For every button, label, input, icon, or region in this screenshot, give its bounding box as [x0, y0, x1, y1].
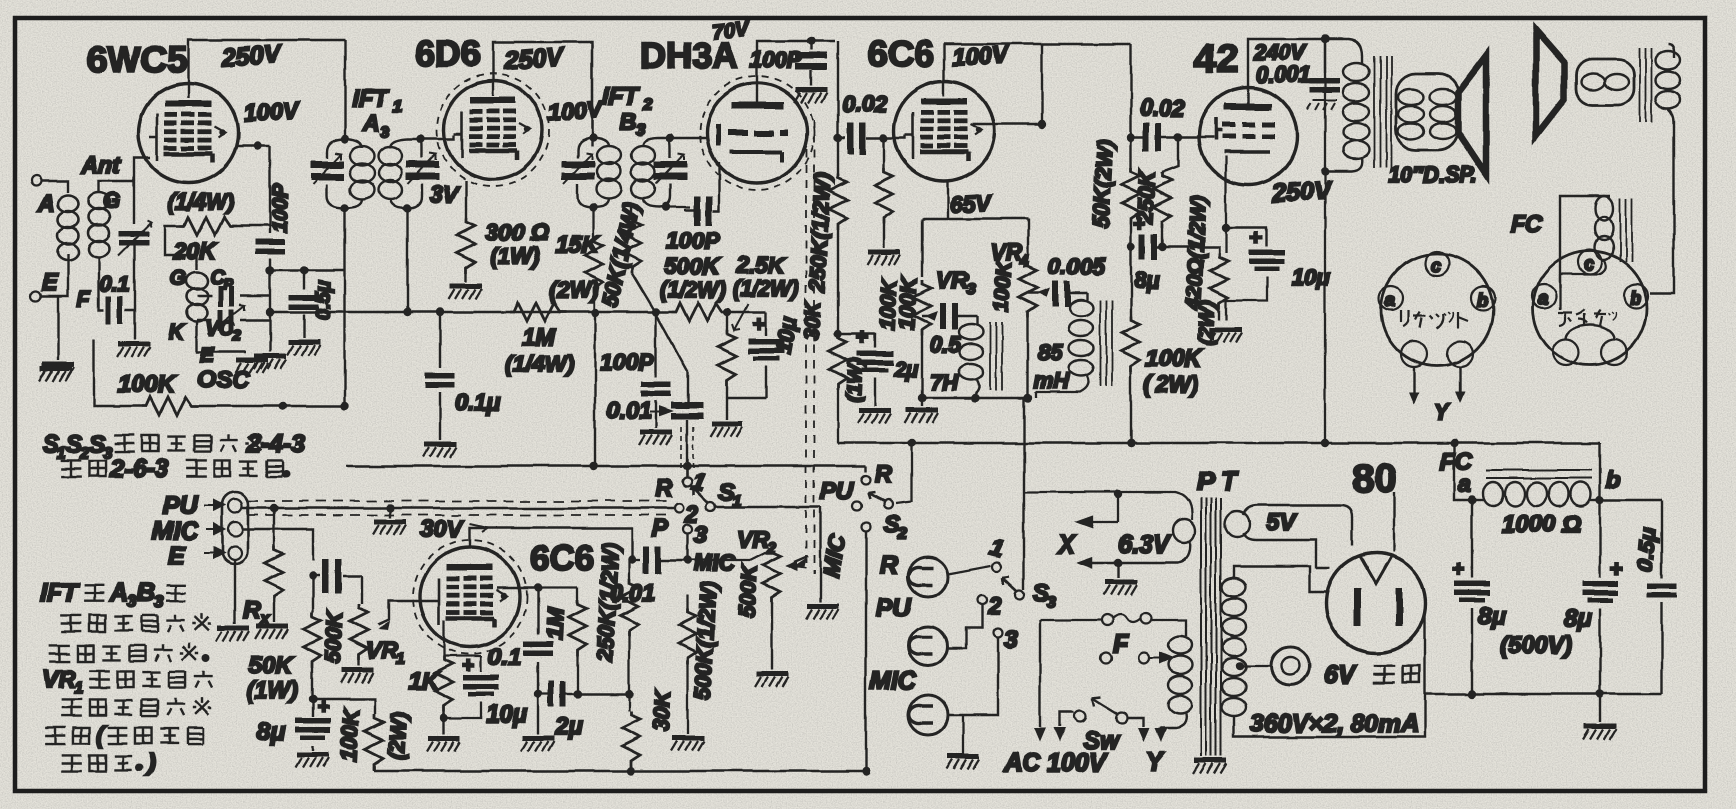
svg-text:6WC5: 6WC5: [87, 39, 187, 80]
bus AVC y466: [346, 466, 866, 472]
svg-text:15K: 15K: [556, 231, 600, 257]
tube 42 envelope: [1199, 87, 1297, 185]
svg-text:100P: 100P: [750, 47, 802, 72]
svg-text:0.001: 0.001: [1256, 62, 1311, 87]
svg-text:G: G: [170, 267, 186, 290]
capacitor VR3 0.5: [922, 303, 977, 357]
wire det node down: [655, 313, 657, 428]
lamp 6V: [1240, 665, 1272, 667]
antenna terminal E: [31, 291, 41, 301]
svg-text:P: P: [223, 276, 234, 293]
capacitor 0.02 out: [1127, 44, 1185, 151]
svg-text:(1W): (1W): [246, 677, 298, 704]
svg-text:VR: VR: [737, 526, 769, 552]
antenna coil primary: [58, 196, 79, 261]
ground padder: [253, 356, 286, 369]
svg-text:500K: 500K: [734, 562, 762, 618]
wire speaker2 down to plug: [1650, 130, 1674, 293]
svg-text:0.01: 0.01: [610, 580, 655, 606]
svg-text:+: +: [1610, 558, 1622, 581]
svg-text:1: 1: [396, 651, 405, 668]
tube DH3A envelope: [707, 83, 807, 183]
svg-text:mH: mH: [1034, 368, 1071, 393]
resistor 1M: [505, 303, 574, 377]
svg-text:a: a: [1538, 288, 1548, 308]
svg-text:R: R: [655, 475, 673, 502]
resistor 30K preamp: [628, 694, 630, 711]
resistor VR4 100K: [990, 259, 1037, 398]
svg-text:FC: FC: [1510, 211, 1543, 238]
svg-text:4: 4: [1019, 253, 1029, 270]
svg-text:1K: 1K: [408, 668, 440, 695]
IFT2 transformer: [562, 133, 687, 211]
svg-text:1000 Ω: 1000 Ω: [1502, 511, 1581, 538]
wire secondary top to tuning cap: [99, 158, 150, 224]
svg-text:VR: VR: [936, 267, 968, 293]
wire IFT1 out to 6D6 grid: [421, 135, 454, 139]
tube 6C6 preamp electrodes: [431, 564, 507, 627]
capacitor 0.1u: [425, 312, 501, 440]
tube 6C6 envelope: [894, 81, 994, 181]
wire 100V node: [236, 145, 270, 147]
svg-text:OSC: OSC: [197, 367, 250, 394]
ground bottom right: [1599, 694, 1601, 722]
resistor 250K half W: [628, 560, 630, 580]
svg-text:PU: PU: [163, 491, 199, 519]
wire MIC panel down: [242, 529, 313, 560]
note line3: [49, 645, 70, 661]
svg-text:85: 85: [1038, 340, 1063, 365]
svg-text:P T: P T: [1197, 466, 1239, 496]
resistor 1M preamp: [577, 588, 579, 600]
svg-text:3: 3: [966, 281, 975, 298]
ground 0.1: [537, 694, 539, 734]
svg-text:0.01: 0.01: [607, 397, 652, 423]
wire agc joins bus: [283, 405, 345, 407]
wire preamp plate right: [497, 560, 538, 588]
svg-text:0.1: 0.1: [488, 644, 521, 671]
resistor 2.5K: [718, 304, 748, 398]
wire E panel ground: [234, 560, 236, 624]
svg-text:(2W): (2W): [1194, 300, 1219, 347]
svg-text:X: X: [1056, 531, 1076, 559]
wire 80 plate top: [1393, 492, 1395, 552]
svg-text:2-4-3: 2-4-3: [246, 430, 305, 458]
svg-text:6D6: 6D6: [415, 33, 481, 74]
shielded line dashes: [248, 500, 672, 502]
ground 0.5u: [287, 342, 320, 355]
wire 6C6 cathode 65V: [947, 181, 949, 219]
antenna coil secondary: [89, 193, 110, 258]
tube 6C6 preamp envelope: [420, 547, 520, 647]
svg-text:100P: 100P: [666, 227, 720, 253]
svg-text:3: 3: [694, 522, 708, 549]
input panel: [222, 492, 248, 564]
svg-text:3V: 3V: [430, 181, 460, 207]
svg-text:100V: 100V: [243, 97, 300, 127]
capacitor 0.02 input 6C6: [834, 41, 905, 174]
svg-text:100P: 100P: [600, 349, 654, 375]
ground 100K grid2: [867, 252, 900, 265]
svg-text:+: +: [1452, 558, 1464, 581]
tube DH3A electrodes: [716, 102, 788, 162]
resistor 500K horizontal: [652, 303, 740, 321]
svg-text:300 Ω: 300 Ω: [486, 219, 549, 245]
svg-text:2: 2: [642, 95, 653, 114]
wire 65V node line: [922, 219, 1028, 277]
wire IFT2 out to DH3A grid: [684, 210, 700, 220]
svg-text:b: b: [1630, 288, 1641, 308]
svg-text:0.02: 0.02: [842, 91, 887, 117]
svg-text:360V×2, 80mA: 360V×2, 80mA: [1250, 710, 1419, 738]
resistor 250K(1/2W) grid: [804, 173, 847, 334]
svg-text:MIC: MIC: [870, 667, 917, 695]
wire A to coil: [41, 181, 68, 193]
svg-text:6V: 6V: [1324, 661, 1357, 689]
tube 6D6 electrodes: [454, 97, 530, 160]
wire plate to 250V rail: [188, 40, 345, 98]
ground 100P lower: [639, 432, 672, 445]
shield pair DH3A line: [806, 120, 814, 574]
FC choke winding: [1472, 482, 1600, 506]
capacitor Cp: [197, 267, 270, 307]
resistor 20K: [180, 217, 236, 235]
note line4: [61, 755, 82, 771]
socket katakana: [1401, 310, 1468, 328]
tube 80 electrodes: [1360, 556, 1392, 584]
svg-text:1: 1: [74, 680, 83, 697]
svg-text:E: E: [168, 542, 186, 570]
resistor Rx: [273, 512, 275, 546]
svg-text:10″D.SP.: 10″D.SP.: [1388, 162, 1478, 187]
svg-text:100V: 100V: [547, 96, 604, 126]
svg-text:b: b: [1477, 290, 1488, 310]
svg-text:+: +: [752, 312, 765, 337]
svg-text:A: A: [109, 579, 128, 607]
svg-text:5V: 5V: [1266, 509, 1297, 536]
wire IFT2 out to DH3A grid: [670, 137, 708, 139]
wire a node: [1454, 443, 1472, 500]
wire bottom row chokes: [922, 397, 1028, 399]
AC plug arrows: [1039, 620, 1041, 727]
speaker2 transformer core: [1640, 48, 1652, 122]
bottom bus left: [374, 770, 866, 772]
ground agc left: [39, 368, 72, 381]
capacitor 8u preamp: [309, 695, 317, 703]
wire 2.5K bottom: [727, 398, 766, 420]
svg-text:6C6: 6C6: [868, 33, 934, 74]
svg-text:80: 80: [1352, 457, 1397, 501]
tube 42 electrodes: [1216, 103, 1275, 152]
svg-text:VR: VR: [366, 637, 398, 663]
shield arrow to VR2: [794, 556, 808, 562]
wire jacks ground: [927, 597, 929, 752]
svg-text:IFT: IFT: [602, 83, 640, 110]
wire cap node to ground: [133, 296, 135, 340]
svg-text:100K: 100K: [336, 706, 364, 762]
ground tuning: [117, 344, 150, 357]
svg-text:50K: 50K: [248, 652, 294, 679]
wire 42 grid: [1178, 136, 1214, 138]
svg-text:3: 3: [127, 592, 137, 611]
svg-text:3: 3: [1047, 594, 1056, 611]
ground 420: [1209, 330, 1242, 343]
svg-text:8μ: 8μ: [256, 718, 285, 746]
svg-text:2: 2: [987, 593, 1002, 620]
note line2: [61, 460, 82, 476]
svg-text:VR: VR: [42, 666, 76, 693]
PT HV winding: [1222, 570, 1246, 716]
note line2: [61, 699, 82, 715]
svg-text:B: B: [137, 579, 155, 607]
svg-text:7H: 7H: [930, 370, 959, 395]
svg-text:+: +: [856, 326, 868, 349]
wire 20K left: [165, 226, 197, 270]
svg-text:A: A: [37, 190, 55, 216]
capacitor 8u: [1127, 213, 1175, 293]
socket pins down: [1414, 367, 1460, 396]
svg-text:0.005: 0.005: [1048, 253, 1107, 279]
capacitor 0.01 preamp: [632, 559, 640, 561]
wire DH3A plate to 70V: [757, 41, 835, 102]
capacitor 100P padder: [255, 146, 292, 352]
capacitor 10u cathode: [740, 312, 801, 398]
oscillator coil Cp: [187, 273, 208, 322]
speaker2 voice coil: [1576, 59, 1634, 105]
svg-text:R: R: [880, 551, 898, 579]
speaker1 horn: [1458, 55, 1486, 174]
svg-text:MIC: MIC: [694, 550, 735, 575]
svg-text:1M: 1M: [541, 606, 569, 640]
svg-text:100K: 100K: [1146, 345, 1202, 371]
tuning capacitor VC1: [118, 220, 152, 296]
svg-text:E: E: [42, 269, 58, 295]
svg-text:IFT: IFT: [352, 85, 390, 112]
svg-text:Y: Y: [1146, 748, 1165, 776]
capacitor 100P lower: [600, 349, 671, 397]
svg-text:100P: 100P: [269, 183, 292, 233]
svg-text:1M: 1M: [522, 324, 556, 351]
wire 20K right: [236, 225, 270, 227]
ground shield: [389, 508, 391, 518]
field coil FC: [1548, 196, 1632, 310]
speaker2 transformer winding: [1656, 44, 1680, 130]
tube 6C6 electrodes: [905, 98, 981, 161]
switch S3: [948, 566, 991, 574]
ground antenna: [41, 364, 74, 377]
svg-text:a: a: [1458, 471, 1471, 497]
svg-text:3: 3: [154, 592, 164, 611]
svg-text:b: b: [1606, 466, 1620, 492]
ground 300ohm: [449, 286, 482, 299]
PT 5V winding: [1225, 505, 1352, 568]
plug katakana: [1558, 310, 1616, 326]
note line3: [45, 727, 66, 743]
heater 6.3V loop: [1024, 492, 1192, 520]
svg-text:100V: 100V: [951, 41, 1010, 71]
ground VR3: [905, 410, 938, 423]
wire 6C6 plate top: [972, 44, 1042, 124]
antenna terminal A: [31, 176, 41, 186]
wire 6D6 plate to 250V: [493, 42, 592, 146]
capacitor 0.1 preamp: [537, 588, 539, 694]
svg-text:500K: 500K: [320, 608, 348, 664]
svg-text:PU: PU: [820, 478, 854, 505]
resistor VR2 500K: [688, 545, 772, 560]
fuse F: [1103, 615, 1114, 626]
capacitor 10u 42: [1226, 226, 1330, 320]
svg-text:IFT: IFT: [40, 579, 80, 607]
switch Sw: [1075, 711, 1086, 722]
svg-text:F: F: [77, 286, 91, 311]
svg-text:10μ: 10μ: [486, 701, 528, 728]
svg-text:(500V): (500V): [1500, 632, 1572, 659]
ground 0.1u: [423, 444, 456, 457]
capacitor 0.005: [1028, 281, 1087, 307]
FC choke core: [1486, 470, 1592, 478]
svg-text:2μ: 2μ: [893, 358, 919, 381]
svg-text:0.5: 0.5: [930, 332, 961, 357]
svg-text:0.1: 0.1: [100, 273, 129, 296]
svg-text:VC: VC: [206, 318, 234, 340]
svg-text:A: A: [362, 110, 380, 136]
capacitor 0.05 coupling: [322, 559, 329, 593]
svg-text:+: +: [462, 655, 474, 677]
wire PU line: [242, 507, 675, 509]
svg-text:30K: 30K: [800, 300, 825, 342]
svg-text:AC 100V: AC 100V: [1003, 749, 1108, 777]
svg-text:0.1μ: 0.1μ: [455, 389, 501, 415]
svg-text:30K: 30K: [648, 689, 675, 733]
svg-text:(1/2W): (1/2W): [660, 277, 726, 302]
tube 6WC5 electrodes: [149, 100, 225, 163]
svg-text:8μ: 8μ: [1478, 603, 1506, 630]
svg-text:(1W): (1W): [490, 243, 540, 269]
svg-text:0.5μ: 0.5μ: [313, 280, 335, 320]
svg-text:PU: PU: [876, 594, 912, 622]
svg-text:2μ: 2μ: [554, 713, 583, 740]
output transformer OPT primary: [1321, 39, 1369, 443]
ground osc: [235, 360, 268, 373]
svg-text:( 2W): ( 2W): [1144, 371, 1198, 397]
capacitor 100P top: [750, 41, 827, 86]
svg-text:2.5K: 2.5K: [735, 252, 786, 278]
capacitor 0.5u out: [1661, 500, 1663, 578]
resistor 300ohm: [457, 218, 549, 282]
speaker2 horn: [1536, 30, 1564, 136]
bus B+ y443: [838, 442, 1600, 444]
ground 100P top: [794, 90, 827, 103]
wire S1 contact1 up: [686, 466, 688, 477]
svg-text:2-6-3: 2-6-3: [109, 455, 168, 483]
wire MIC contact down: [865, 532, 867, 771]
tube 80 envelope: [1326, 553, 1426, 653]
svg-text:3: 3: [380, 124, 389, 141]
svg-text:MIC: MIC: [152, 517, 199, 545]
svg-text:6.3V: 6.3V: [1118, 531, 1172, 559]
svg-text:G: G: [103, 188, 120, 213]
bottom bus right: [1425, 693, 1662, 695]
resistor 100K grid2: [875, 134, 922, 330]
wire 42 cathode down: [1225, 156, 1227, 253]
svg-text:B: B: [620, 108, 637, 134]
svg-text:2: 2: [232, 327, 242, 344]
PT core: [1201, 498, 1221, 756]
capacitor 0.5u screen: [289, 270, 335, 338]
ground PT: [1209, 756, 1211, 758]
ground 2.5K: [710, 424, 743, 437]
svg-text:F: F: [1113, 630, 1129, 658]
svg-text:x: x: [259, 609, 271, 628]
svg-text:3: 3: [636, 122, 645, 139]
wire IFT1 bottoms down: [345, 208, 407, 312]
capacitor 2u preamp: [538, 693, 548, 695]
resistor 100K 2W preamp: [313, 699, 375, 714]
resistor 500K half: [687, 594, 689, 608]
resistor 500K VR1: [361, 576, 363, 604]
wire HV bottom loop: [1234, 612, 1425, 737]
socket circle: [1379, 252, 1495, 367]
resistor 100K agc: [94, 340, 283, 415]
resistor 50K 1W: [312, 576, 314, 612]
svg-text:1: 1: [393, 97, 402, 116]
svg-text:2: 2: [897, 525, 907, 542]
svg-text:a: a: [1385, 290, 1395, 310]
capacitor 8u left: [1471, 500, 1473, 578]
resistor VR3 100K: [876, 277, 931, 406]
svg-text:(1/2W): (1/2W): [733, 276, 799, 301]
capacitor 0.01 coupling: [607, 316, 703, 477]
svg-text:250V: 250V: [502, 43, 566, 75]
capacitor 0.001: [1307, 39, 1340, 110]
wire 42 plate up: [1248, 39, 1325, 103]
svg-text:0.02: 0.02: [1140, 95, 1185, 121]
svg-text:65V: 65V: [949, 190, 993, 218]
wire 100V rail top: [944, 43, 1131, 45]
PT primary winding: [1161, 630, 1192, 728]
capacitor 10u preamp: [444, 649, 481, 651]
wire preamp grid VR1 wiper: [378, 601, 431, 625]
wire b node: [1600, 443, 1662, 500]
resistor 1K: [443, 620, 445, 656]
wire coil bottom to ground: [197, 322, 246, 352]
capacitor 0.1: [99, 258, 134, 324]
capacitor 8u right: [1601, 500, 1603, 578]
svg-text:100K: 100K: [990, 259, 1016, 312]
svg-text:(2W): (2W): [549, 277, 599, 303]
svg-text:20K: 20K: [173, 238, 218, 264]
svg-text:(1/4W): (1/4W): [505, 351, 574, 377]
resistor 100K(2W): [1122, 316, 1202, 447]
svg-text:3: 3: [1004, 626, 1018, 653]
wire fuse to AC: [1040, 620, 1102, 704]
wire S1 pivot right: [716, 507, 820, 602]
svg-text:R: R: [243, 597, 261, 624]
svg-text:0.5μ: 0.5μ: [1632, 527, 1661, 573]
IFT1 transformer: [311, 40, 439, 212]
svg-text:P: P: [652, 515, 669, 542]
svg-text:100K: 100K: [876, 277, 902, 330]
tube 6WC5 envelope: [138, 83, 238, 183]
resistor 30K cathode: [800, 300, 867, 443]
svg-text:42: 42: [1194, 37, 1239, 81]
svg-text:(2W): (2W): [384, 711, 411, 760]
resistor 50K(2W): [1088, 137, 1140, 316]
svg-text:K: K: [169, 321, 186, 344]
ground 1K: [443, 718, 445, 734]
svg-text:250V: 250V: [220, 40, 284, 72]
tube 6D6 envelope: [444, 81, 542, 179]
